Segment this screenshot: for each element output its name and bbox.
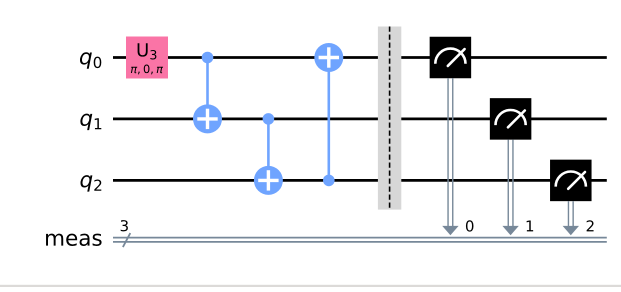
CNOT 1 target on q1 [193,104,222,133]
measure gate on q0 [430,37,472,79]
wire q1 [113,118,607,121]
CNOT 3 target on q0 [314,43,343,72]
CNOT 3 control dot on q2 [323,175,335,187]
qubit label q0 [80,52,101,69]
measure arrow q0 to clbit 0 [442,78,458,235]
wire q2 [113,179,607,182]
qubit label q2 [80,175,101,192]
CNOT 1 control dot on q0 [202,52,214,64]
CNOT 2 control dot on q1 [263,113,275,125]
gate params pi, 0, pi [131,65,163,75]
clbit label 0 [466,220,474,231]
bundle size label 3 [121,220,128,231]
classical wire meas (double line) [113,238,607,242]
wire q0 [113,56,607,59]
CNOT 2 target on q2 [254,166,283,195]
clbit label 1 [527,220,534,231]
qubit label q1 [80,114,101,131]
classical bundle slash [123,233,130,247]
CNOT 1 connector [206,58,209,119]
CNOT 2 connector [267,119,270,180]
classical register label meas [46,234,102,246]
measure gate on q1 [490,98,531,139]
measure gate on q2 [550,160,592,202]
clbit label 2 [587,220,594,231]
barrier dashed line [389,27,391,210]
page separator line [0,285,621,287]
gate label U3 [138,43,157,59]
measure arrow q2 to clbit 2 [563,201,579,235]
measure arrow q1 to clbit 1 [502,140,518,236]
CNOT 3 connector [327,58,330,181]
gate U3 on q0 [126,37,168,79]
barrier shading [378,27,401,210]
